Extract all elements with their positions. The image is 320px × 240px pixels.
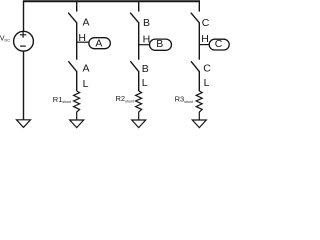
ammeter B [150,39,172,50]
wire branch C drop [198,1,200,11]
wire source bottom [23,51,25,120]
switch C top [191,13,199,22]
svg-text:C: C [202,17,210,29]
svg-text:C: C [203,62,211,74]
ground under R1shunt [70,120,84,128]
svg-text:L: L [83,78,89,90]
svg-text:B: B [142,63,149,75]
ground under R3shunt [192,120,206,128]
switch C bottom [191,62,198,71]
wire branch B lower [138,71,140,91]
svg-text:R1shunt: R1shunt [53,95,71,104]
wire branch A middle [76,22,78,60]
svg-text:B: B [156,38,163,50]
wire top rail [23,0,200,2]
ground under source [17,120,31,128]
ammeter A [89,38,111,49]
voltage source V_DC [14,31,34,51]
plus sign of source [20,32,26,38]
wire branch B drop [138,1,140,11]
resistor R3shunt [196,91,202,120]
svg-text:A: A [95,38,102,50]
svg-text:B: B [143,17,150,29]
wire branch C lower [198,71,200,91]
svg-text:C: C [215,38,223,50]
switch A top [69,13,77,22]
wire source top [23,1,25,31]
svg-text:R3shunt: R3shunt [175,95,193,104]
switch B top [131,13,139,22]
resistor R1shunt [74,91,80,120]
svg-text:L: L [142,77,148,89]
wire branch A lower [76,71,78,91]
wire node H stub C [199,44,209,46]
wire branch A drop [76,1,78,11]
svg-text:A: A [83,63,90,75]
svg-text:H: H [78,32,86,44]
svg-text:A: A [83,16,90,28]
svg-text:R2shunt: R2shunt [116,94,134,103]
minus sign of source [20,45,26,47]
ground under R2shunt [132,120,146,128]
ammeter C [209,39,229,50]
wire branch C middle [198,22,200,60]
switch A bottom [69,62,76,71]
svg-text:VDC: VDC [0,35,10,42]
svg-text:L: L [204,77,210,89]
svg-text:H: H [201,33,209,45]
svg-text:H: H [143,33,151,45]
wire branch B middle [138,22,140,60]
switch B bottom [131,62,138,71]
wire node H stub A [77,41,89,43]
wire node H stub B [139,44,150,46]
resistor R2shunt [136,91,142,120]
